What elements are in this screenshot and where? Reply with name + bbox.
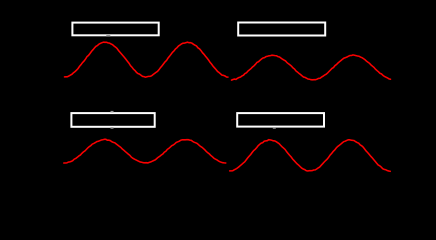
- speaker box bottom-right: [237, 113, 324, 127]
- wave bottom-right (high amplitude, 2 periods): [230, 140, 391, 172]
- speaker box top-left: [72, 23, 158, 36]
- gray notch on top edge of bottom-left box: [111, 111, 114, 113]
- wave top-left (high amplitude, 2 periods): [65, 42, 229, 77]
- speaker box bottom-left: [71, 113, 154, 127]
- wave bottom-left (low amplitude, 2 periods): [64, 139, 226, 163]
- gray notch on bottom edge of bottom-left box: [111, 127, 114, 129]
- speaker box top-right: [238, 23, 325, 36]
- wave top-right (low amplitude, 2 periods): [232, 55, 391, 80]
- gray notch on bottom edge of top-left box: [106, 35, 110, 37]
- gray notch on bottom edge of bottom-right box: [273, 127, 276, 129]
